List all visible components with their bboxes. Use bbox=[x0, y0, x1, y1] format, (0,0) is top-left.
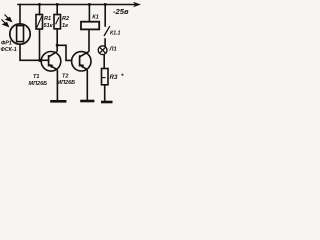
wire contact drop from rail bbox=[104, 5, 106, 27]
wire R1 drop from rail bbox=[39, 5, 41, 15]
wire R1 bottom to base node bbox=[39, 29, 41, 60]
node T1 base junction bbox=[38, 59, 41, 62]
transistor T1 MP26B bbox=[40, 52, 61, 72]
svg-text:51к: 51к bbox=[44, 23, 54, 29]
wire photoresistor bottom to T1 base node bbox=[20, 44, 40, 60]
node collector branch junction bbox=[56, 44, 59, 47]
svg-text:Т2: Т2 bbox=[62, 73, 68, 79]
label R2 1k bbox=[62, 16, 70, 29]
label T2 MP26B bbox=[57, 73, 76, 86]
svg-text:К1: К1 bbox=[92, 15, 99, 21]
wire relay coil drop from rail bbox=[88, 5, 90, 22]
wire R2 drop from rail bbox=[56, 5, 58, 15]
svg-text:R2: R2 bbox=[62, 16, 70, 22]
resistor R1 bbox=[36, 15, 43, 30]
svg-text:МП26Б: МП26Б bbox=[57, 80, 76, 86]
relay coil K1 bbox=[81, 22, 99, 30]
svg-text:ФР1: ФР1 bbox=[1, 41, 12, 47]
svg-text:Т1: Т1 bbox=[33, 74, 39, 80]
label R1 51k bbox=[44, 16, 54, 29]
svg-text:-25в: -25в bbox=[113, 7, 129, 16]
svg-text:R1: R1 bbox=[44, 16, 51, 22]
photoresistor label FSK-1 bbox=[1, 41, 17, 53]
label R3* bbox=[110, 73, 125, 81]
svg-text:МП26Б: МП26Б bbox=[29, 81, 48, 87]
svg-text:К1.1: К1.1 bbox=[110, 30, 121, 36]
wire T2 emitter to ground bbox=[86, 70, 88, 101]
wire top supply rail bbox=[18, 4, 135, 6]
wire left drop to photoresistor bbox=[19, 5, 21, 25]
wire T1 emitter to ground bbox=[56, 70, 58, 101]
ground R3 bbox=[101, 101, 113, 104]
transistor T2 emitter arrow bbox=[80, 64, 84, 68]
photoresistor R4 body bbox=[10, 24, 30, 44]
resistor R3 bbox=[102, 69, 109, 85]
label T1 MP26B bbox=[29, 74, 48, 87]
ground T2 emitter bbox=[80, 100, 94, 103]
wire contact lower terminal to lamp bbox=[104, 38, 106, 46]
svg-text:R3: R3 bbox=[110, 74, 118, 81]
transistor T2 MP26B bbox=[72, 52, 91, 72]
wire lamp bottom to R3 bbox=[103, 55, 105, 69]
supply arrow -25v bbox=[113, 2, 141, 16]
lamp L1 bbox=[98, 46, 107, 55]
resistor R2 bbox=[54, 15, 61, 29]
wire R2 bottom to T1 collector bbox=[56, 29, 58, 52]
node junction dots on rail bbox=[38, 3, 107, 6]
svg-text:ФСК-1: ФСК-1 bbox=[1, 47, 17, 53]
svg-text:Л1: Л1 bbox=[109, 47, 117, 53]
wire R3 bottom to ground bbox=[104, 85, 106, 101]
transistor T1 emitter arrow bbox=[49, 64, 53, 68]
photoresistor R4 FSK-1 light arrows bbox=[2, 15, 12, 27]
relay contact K1.1 bbox=[104, 26, 110, 36]
wire T2 collector to relay coil bbox=[88, 29, 90, 51]
ground T1 emitter bbox=[50, 100, 66, 103]
wire coupling T1 collector to T2 base bbox=[57, 45, 72, 60]
